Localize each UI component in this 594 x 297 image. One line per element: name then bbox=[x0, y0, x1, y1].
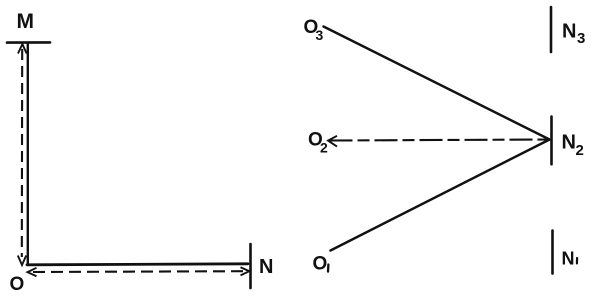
svg-text:3: 3 bbox=[577, 30, 585, 47]
arrowhead down at O bbox=[18, 256, 26, 266]
svg-text:3: 3 bbox=[316, 27, 324, 43]
arrowhead right at N bbox=[241, 267, 250, 275]
arrowhead up at M bbox=[18, 44, 27, 54]
svg-text:M: M bbox=[17, 10, 35, 33]
dashed ray O to M (vertical, double-arrowed) bbox=[21, 49, 24, 257]
svg-text:N: N bbox=[562, 21, 576, 43]
arrowhead left at O2 bbox=[328, 136, 337, 147]
wire: solid line M to O bbox=[27, 43, 29, 265]
mirror tick N3 bbox=[550, 7, 553, 52]
mirror tick N1 bbox=[551, 231, 554, 274]
arrowhead left at O bbox=[28, 268, 37, 276]
svg-text:N: N bbox=[259, 256, 273, 278]
mirror tick at N bbox=[249, 244, 252, 288]
wire: solid line O to N bbox=[27, 264, 248, 265]
ray O1 to N2 (solid) bbox=[331, 140, 550, 251]
mirror tick at M bbox=[7, 41, 50, 44]
svg-text:O: O bbox=[313, 254, 328, 275]
svg-text:2: 2 bbox=[576, 142, 584, 159]
dashed ray N2 to O2 bbox=[330, 140, 549, 141]
svg-text:2: 2 bbox=[320, 140, 328, 156]
dashed ray N to O (horizontal, double-arrowed) bbox=[33, 270, 243, 273]
svg-text:N: N bbox=[562, 249, 575, 269]
ray O3 to N2 (solid) bbox=[324, 27, 550, 140]
svg-text:O: O bbox=[10, 274, 25, 295]
svg-text:N: N bbox=[562, 132, 576, 154]
mirror tick N2 bbox=[550, 117, 553, 165]
